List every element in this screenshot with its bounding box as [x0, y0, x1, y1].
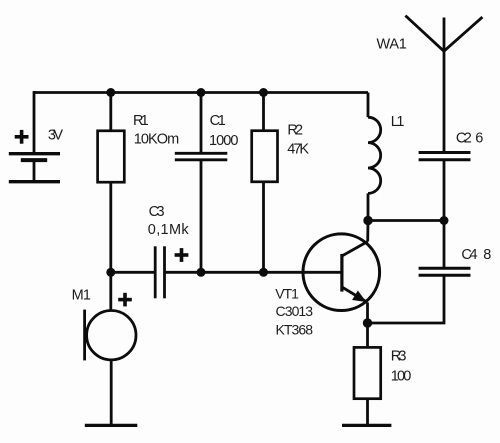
- svg-text:6: 6: [475, 131, 483, 147]
- wire R3 bottom: [366, 399, 369, 426]
- svg-text:10KOm: 10KOm: [134, 131, 180, 147]
- wire C4 bottom to emitter node: [368, 275, 445, 323]
- wire C2 bottom to junction: [443, 160, 446, 221]
- resistor R1: [98, 131, 125, 182]
- microphone M1: [85, 310, 136, 361]
- resistor R3: [354, 347, 381, 398]
- wire R2 bottom: [262, 182, 265, 272]
- svg-text:C2: C2: [456, 131, 472, 147]
- node junction C2 C4: [440, 216, 449, 225]
- svg-text:R1: R1: [133, 113, 149, 129]
- node junction mid rail C1: [197, 268, 206, 277]
- wire collector node to C2 C4 junction: [368, 219, 444, 222]
- svg-text:C3: C3: [149, 204, 165, 220]
- svg-text:R3: R3: [391, 349, 407, 365]
- antenna WA1: [405, 16, 482, 52]
- wire antenna mast to C2: [443, 51, 446, 152]
- wire R1 bottom: [109, 182, 112, 272]
- C3 plus polarity mark: [175, 248, 189, 262]
- wire top rail: [34, 91, 368, 94]
- svg-text:8: 8: [483, 247, 491, 263]
- svg-text:L1: L1: [391, 114, 405, 130]
- node junction top rail R1: [106, 88, 115, 97]
- wire collector up: [366, 221, 369, 242]
- capacitor C3: [155, 246, 164, 298]
- wire L1 bottom: [367, 193, 370, 220]
- node junction mid rail R2: [259, 268, 268, 277]
- resistor R2: [252, 131, 278, 182]
- wire battery positive drop: [33, 91, 36, 154]
- svg-text:WA1: WA1: [377, 36, 407, 52]
- svg-text:3V: 3V: [48, 127, 63, 143]
- transistor VT1: [303, 234, 380, 311]
- ground R3: [342, 424, 391, 427]
- svg-text:0,1Mk: 0,1Mk: [148, 222, 190, 238]
- wire C1 bottom: [200, 160, 203, 272]
- wire mid rail right (C3 to base): [165, 271, 341, 274]
- wire emitter node to R3: [366, 323, 369, 347]
- capacitor C2: [419, 153, 471, 160]
- svg-text:47K: 47K: [287, 142, 309, 158]
- svg-text:R2: R2: [287, 123, 303, 139]
- wire M1 node down: [109, 272, 112, 310]
- battery 3V: [9, 154, 60, 182]
- capacitor C4: [419, 268, 471, 275]
- wire M1 bottom: [110, 360, 113, 426]
- wire R1 top: [109, 93, 112, 132]
- node junction emitter C4: [363, 318, 372, 327]
- wire junction to C4 top: [443, 221, 446, 269]
- inductor L1: [368, 117, 381, 193]
- wire R2 top: [262, 93, 265, 131]
- wire emitter down: [366, 303, 369, 324]
- wire mid rail left (M1 node to C3): [111, 271, 155, 274]
- svg-text:VT1: VT1: [275, 286, 299, 302]
- svg-text:KT368: KT368: [276, 321, 314, 337]
- svg-text:C3013: C3013: [276, 303, 314, 319]
- node junction top rail C1: [197, 88, 206, 97]
- M1 plus polarity mark: [118, 293, 132, 307]
- wire L1 top: [367, 93, 370, 118]
- svg-text:M1: M1: [72, 288, 91, 304]
- svg-text:C4: C4: [461, 247, 477, 263]
- node junction top rail R2: [259, 88, 268, 97]
- node junction collector L1: [363, 216, 372, 225]
- svg-text:100: 100: [391, 369, 412, 385]
- svg-text:1000: 1000: [209, 133, 238, 149]
- ground M1: [85, 424, 138, 427]
- wire C1 top: [200, 93, 203, 154]
- capacitor C1: [175, 153, 228, 160]
- svg-text:C1: C1: [210, 113, 226, 129]
- node junction mid rail M1: [106, 268, 115, 277]
- battery plus polarity mark: [15, 130, 29, 144]
